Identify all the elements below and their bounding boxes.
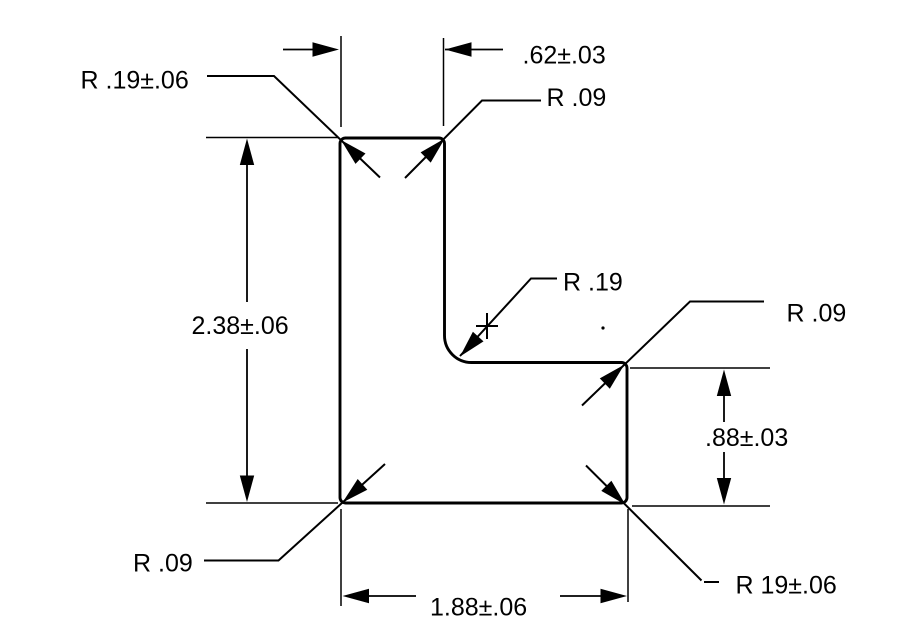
dimension arrow pointing right at left ext line xyxy=(283,42,339,56)
stray scan speck xyxy=(601,326,604,329)
leader line for right R .09 radius callout xyxy=(582,302,764,406)
svg-text:R .19: R .19 xyxy=(563,269,623,297)
horizontal dimension line left part with left arrow xyxy=(343,589,417,603)
svg-text:R 19±.06: R 19±.06 xyxy=(736,572,837,600)
horizontal dimension line right part with right arrow xyxy=(560,589,627,603)
vertical dimension line lower part with down arrow xyxy=(240,349,254,502)
leader arrowhead at bottom-right corner xyxy=(601,481,625,505)
svg-text:.62±.03: .62±.03 xyxy=(523,42,606,70)
extension line at bottom edge level (left) xyxy=(206,502,338,504)
extension line at step corner level (right) xyxy=(630,367,770,369)
vertical dimension line lower part with down arrow xyxy=(717,452,731,505)
svg-text:R .09: R .09 xyxy=(133,550,193,578)
vertical dimension line upper part with up arrow xyxy=(717,370,731,423)
leader arrowhead at step corner xyxy=(600,365,624,389)
extension line top-left of .62 dimension xyxy=(340,36,342,127)
svg-text:R .09: R .09 xyxy=(547,84,607,112)
extension line below bottom-left corner xyxy=(340,509,342,606)
svg-text:R .09: R .09 xyxy=(787,300,847,328)
extension line below bottom-right corner xyxy=(627,509,629,602)
leader line for bottom-right R 19±.06 radius callout xyxy=(586,466,719,583)
svg-text:.88±.03: .88±.03 xyxy=(705,424,788,452)
dimension arrow pointing left at right ext line, with leader to text xyxy=(445,42,503,56)
svg-text:1.88±.06: 1.88±.06 xyxy=(430,594,527,622)
part outline: L-shaped profile with R.19 fillet xyxy=(340,138,627,503)
extension line at top edge level (left) xyxy=(206,137,338,139)
leader arrowhead at bottom-left corner xyxy=(343,479,368,503)
vertical dimension line upper part with up arrow xyxy=(240,139,254,303)
fillet center mark cross xyxy=(476,313,498,339)
leader arrowhead touching fillet arc xyxy=(460,332,484,357)
leader arrowhead at top-left corner xyxy=(341,140,366,164)
leader line for R .19±.06 radius callout xyxy=(207,76,380,178)
leader line for bottom-left R .09 radius callout xyxy=(204,464,385,561)
leader line for top R .09 radius callout xyxy=(405,101,541,179)
svg-text:2.38±.06: 2.38±.06 xyxy=(192,312,289,340)
extension line at bottom edge level (right) xyxy=(632,505,770,507)
leader line for inner fillet R .19 callout xyxy=(460,279,557,357)
svg-text:R .19±.06: R .19±.06 xyxy=(81,67,189,95)
extension line top-right of .62 dimension xyxy=(443,38,445,126)
leader arrowhead at top-right corner xyxy=(421,139,445,163)
